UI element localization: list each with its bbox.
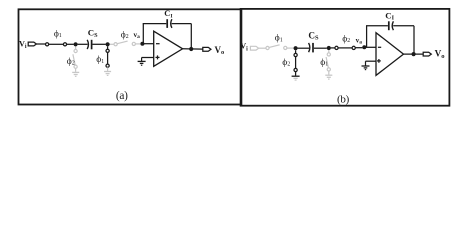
svg-text:(a): (a) bbox=[116, 90, 128, 102]
svg-text:(b): (b) bbox=[337, 94, 350, 106]
